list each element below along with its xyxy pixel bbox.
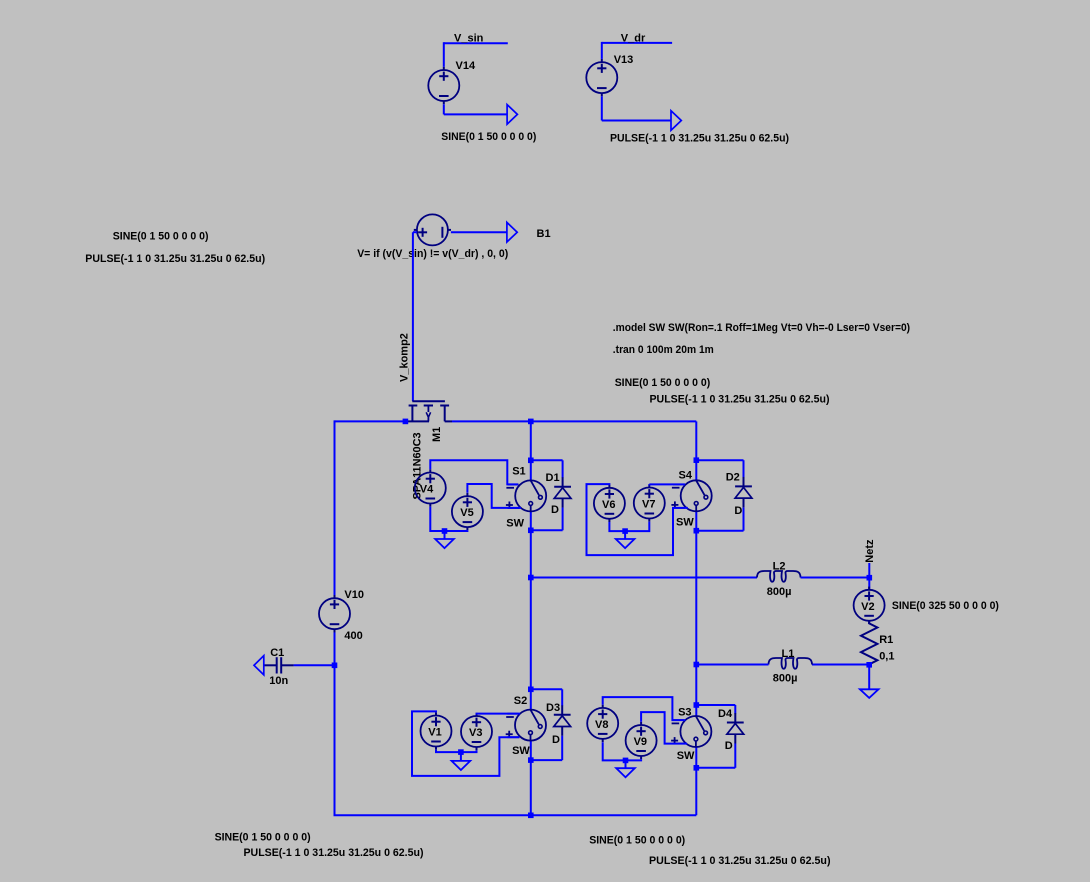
voltage source V7 [634, 484, 665, 521]
svg-text:D4: D4 [718, 708, 733, 720]
svg-text:V9: V9 [634, 736, 647, 748]
junction S1 bottom / D1 [528, 528, 534, 534]
net label V_sin [454, 33, 484, 45]
label L1 [782, 648, 795, 660]
wire from B1 right to port [451, 231, 507, 233]
label V8 [595, 719, 608, 731]
wire V7 minus to ground node [625, 522, 649, 531]
value label 10n [269, 675, 288, 687]
wire D1 bottom [531, 508, 563, 531]
wire left rail upper (bus to V10) [334, 420, 336, 598]
label V2 [861, 601, 874, 613]
switch S4 [671, 480, 711, 511]
net label V_komp2 (rotated) [398, 333, 410, 382]
voltage source V9 [626, 722, 657, 759]
text .model directive [613, 322, 911, 334]
junction right rail / L1 [694, 662, 700, 668]
wire V9 plus to S3 plus [641, 712, 687, 744]
wire ground stem S2 block [460, 752, 462, 761]
voltage source V3 [461, 713, 492, 750]
resistor R1 [861, 621, 877, 664]
wire left rail lower (V10 to bottom bus) [334, 629, 336, 815]
wire middle rail (S2 to bottom bus) [530, 741, 532, 816]
svg-text:D3: D3 [546, 702, 560, 714]
svg-text:C1: C1 [270, 647, 284, 659]
svg-text:L2: L2 [773, 561, 786, 573]
port flag arrow (V13 output) [671, 111, 681, 131]
label V5 [460, 507, 473, 519]
svg-text:D2: D2 [726, 471, 740, 483]
wire D3 top [531, 689, 562, 705]
label D2 [726, 471, 740, 483]
wire D2 bottom [696, 508, 743, 531]
wire top bus left (source node) [335, 420, 408, 422]
svg-text:.model SW SW(Ron=.1 Roff=1Meg: .model SW SW(Ron=.1 Roff=1Meg Vt=0 Vh=-0… [613, 322, 911, 334]
label V9 [634, 736, 647, 748]
voltage source V8 [587, 705, 618, 742]
value label PULSE of V13 [610, 133, 789, 145]
svg-text:PULSE(-1 1 0 31.25u 31.25u 0 6: PULSE(-1 1 0 31.25u 31.25u 0 62.5u) [650, 393, 830, 405]
label V10 [344, 589, 364, 601]
junction S3 bottom / D4 [694, 765, 700, 771]
ground flag below R1 [860, 689, 879, 698]
port flag arrow (V14 output) [507, 105, 517, 125]
wire V5 minus to ground node [445, 529, 468, 532]
junction V4/V5 ground node [442, 528, 448, 534]
label S2 [514, 695, 527, 707]
svg-text:Netz: Netz [864, 539, 876, 563]
ground flag S3 block [616, 768, 635, 777]
label V14 [456, 60, 476, 72]
svg-text:PULSE(-1 1 0 31.25u 31.25u 0 6: PULSE(-1 1 0 31.25u 31.25u 0 62.5u) [610, 133, 789, 145]
text PULSE directive top-left [85, 253, 265, 265]
label SW of S1 [506, 517, 524, 529]
svg-text:SW: SW [676, 516, 694, 528]
ground flag S1 block [435, 539, 454, 548]
label S3 [678, 707, 691, 719]
ground flag S2 block [452, 761, 471, 770]
svg-text:800µ: 800µ [767, 586, 792, 598]
wire L2 right [801, 577, 870, 579]
label D4 [718, 708, 733, 720]
wire right rail (bus to S4) [695, 421, 697, 480]
label V13 [614, 54, 634, 66]
wire D4 top [696, 705, 735, 713]
svg-text:SW: SW [506, 517, 524, 529]
voltage source V10 [319, 595, 350, 632]
junction C1 / left rail [332, 663, 338, 669]
value label SINE of V2 [892, 600, 999, 612]
label D of D2 [734, 505, 742, 517]
label S4 [679, 470, 693, 482]
wire D3 bottom [531, 736, 562, 760]
wire right rail (S3 to bottom bus) [695, 747, 697, 815]
svg-text:V4: V4 [420, 484, 434, 496]
text SINE directive top-left [113, 231, 209, 243]
svg-text:800µ: 800µ [773, 672, 798, 684]
wire V8 plus to S3 minus [603, 697, 686, 720]
svg-text:SINE(0 1 50 0 0 0 0): SINE(0 1 50 0 0 0 0) [113, 231, 209, 243]
value label of B1 [357, 248, 508, 260]
svg-text:V10: V10 [344, 589, 364, 601]
voltage source V6 [594, 485, 625, 522]
value label 800u of L2 [767, 586, 792, 598]
label M1 (rotated) [431, 427, 443, 442]
wire C1 to left rail [294, 664, 335, 666]
svg-text:V_sin: V_sin [454, 33, 484, 45]
wire V4 plus to S1 minus [430, 460, 518, 484]
svg-text:S2: S2 [514, 695, 527, 707]
svg-text:SINE(0 1 50 0 0 0 0): SINE(0 1 50 0 0 0 0) [615, 377, 711, 389]
diode D1 [554, 477, 571, 508]
port flag arrow (C1 left) [254, 656, 264, 675]
wire V7 plus to S4 minus [649, 483, 685, 485]
label S1 [512, 465, 525, 477]
net label Netz (rotated) [864, 539, 876, 563]
svg-text:V= if (v(V_sin) != v(V_dr) , 0: V= if (v(V_sin) != v(V_dr) , 0, 0) [357, 248, 508, 260]
svg-text:D1: D1 [546, 472, 560, 484]
wire V_sin net (top of V14) [444, 42, 508, 67]
label SW of S4 [676, 516, 694, 528]
label R1 [879, 634, 893, 646]
text .tran directive [613, 344, 714, 356]
wire middle rail (S1 to S2) [530, 511, 532, 709]
behavioral source B1 [414, 214, 451, 245]
switch S1 [506, 480, 546, 511]
wire V1 minus to ground node [436, 750, 461, 752]
capacitor C1 [264, 657, 294, 673]
label V7 [642, 499, 655, 511]
wire V9 minus to ground node [626, 759, 642, 760]
junction middle rail / L2 [528, 575, 534, 581]
junction R1 / L1 [866, 662, 872, 668]
wire V4 minus to ground node [430, 507, 444, 531]
port flag arrow (B1 output) [507, 222, 517, 242]
wire L1 left [696, 664, 768, 666]
voltage source V5 [452, 493, 483, 530]
diode D2 [735, 477, 752, 508]
value label SINE of V14 [441, 131, 536, 143]
switch S3 [671, 716, 711, 747]
wire V6 plus loop to S4 plus [587, 484, 688, 555]
junction Netz / L2 [867, 575, 873, 581]
text SINE directive bottom-right [589, 834, 685, 846]
svg-text:400: 400 [344, 630, 362, 642]
nmos transistor M1 [407, 401, 452, 421]
svg-text:10n: 10n [269, 675, 288, 687]
voltage source V2 [854, 587, 885, 624]
label D of D3 [552, 734, 560, 746]
value label 400 [344, 630, 362, 642]
inductor L2 [757, 571, 801, 582]
svg-text:S1: S1 [512, 465, 525, 477]
junction top bus / middle rail [528, 419, 534, 425]
svg-text:V8: V8 [595, 719, 608, 731]
svg-text:D: D [725, 740, 733, 752]
label V3 [469, 727, 482, 739]
label SW of S3 [677, 750, 695, 762]
text PULSE directive bottom-right [649, 855, 831, 867]
svg-text:M1: M1 [431, 427, 443, 442]
voltage source V1 [421, 712, 452, 749]
wire V3 minus to ground node [461, 750, 477, 752]
label V4 [420, 484, 434, 496]
wire L2 left [531, 577, 757, 579]
wire right rail (S4 to S3) [695, 511, 697, 716]
svg-text:L1: L1 [782, 648, 795, 660]
junction S4 bottom / D2 [694, 528, 700, 534]
svg-text:V13: V13 [614, 54, 634, 66]
label V1 [428, 727, 441, 739]
wire D1 top [531, 460, 563, 477]
label B1 [537, 228, 551, 240]
wire V_dr net (top of V13) [602, 42, 672, 59]
text SINE directive bottom-left [215, 832, 311, 844]
svg-text:V6: V6 [602, 499, 615, 511]
ground flag S4 block [616, 539, 635, 548]
svg-text:V5: V5 [460, 507, 473, 519]
svg-text:V3: V3 [469, 727, 482, 739]
wire Netz net [868, 563, 870, 590]
label D3 [546, 702, 560, 714]
svg-text:S4: S4 [679, 470, 693, 482]
svg-text:V7: V7 [642, 499, 655, 511]
voltage source V14 [428, 67, 459, 104]
junction V8/V9 ground node [623, 758, 629, 764]
wire L1 right [812, 664, 869, 666]
label D1 [546, 472, 560, 484]
svg-text:SINE(0 325 50 0 0 0 0): SINE(0 325 50 0 0 0 0) [892, 600, 999, 612]
junction V6/V7 ground node [622, 528, 628, 534]
wire V1 plus loop to S2 plus [412, 711, 519, 776]
svg-text:D: D [734, 505, 742, 517]
svg-text:D: D [551, 504, 559, 516]
svg-text:SINE(0 1 50 0 0 0 0): SINE(0 1 50 0 0 0 0) [441, 131, 536, 143]
junction S1 top / D1 [528, 458, 534, 464]
junction S2 top / D3 [528, 687, 534, 693]
wire top bus right (drain node) [452, 420, 696, 422]
svg-text:SW: SW [512, 745, 530, 757]
svg-text:PULSE(-1 1 0 31.25u 31.25u 0 6: PULSE(-1 1 0 31.25u 31.25u 0 62.5u) [85, 253, 265, 265]
svg-text:B1: B1 [537, 228, 551, 240]
svg-text:R1: R1 [879, 634, 893, 646]
value label SPA11N60C3 (rotated) [411, 433, 423, 500]
svg-text:.tran 0 100m 20m 1m: .tran 0 100m 20m 1m [613, 344, 714, 356]
svg-text:V14: V14 [456, 60, 476, 72]
inductor L1 [769, 658, 813, 669]
switch S2 [506, 710, 546, 741]
wire bottom bus [334, 814, 697, 816]
label D of D4 [725, 740, 733, 752]
text PULSE directive middle [650, 393, 830, 405]
label V6 [602, 499, 615, 511]
junction at M1 source [403, 419, 409, 425]
junction S4 top / D2 [694, 457, 700, 463]
wire V5 plus to S1 plus [467, 484, 521, 508]
junction V1/V3 ground node [458, 749, 464, 755]
wire from V14 bottom [444, 104, 507, 114]
wire D2 top [696, 460, 743, 477]
wire V3 plus to S2 minus [477, 712, 521, 715]
label C1 [270, 647, 284, 659]
svg-text:S3: S3 [678, 707, 691, 719]
svg-text:SW: SW [677, 750, 695, 762]
wire ground stem below R1 [868, 665, 870, 690]
svg-text:V2: V2 [861, 601, 874, 613]
voltage source V13 [586, 59, 617, 96]
text PULSE directive bottom-left [244, 847, 424, 859]
label SW of S2 [512, 745, 530, 757]
wire V8 minus to ground node [603, 742, 626, 760]
junction bottom bus / middle rail [528, 813, 534, 819]
wire D4 bottom [696, 744, 735, 768]
junction S3 top / D4 [694, 702, 700, 708]
label L2 [773, 561, 786, 573]
junction S2 bottom / D3 [528, 757, 534, 763]
wire V_komp2 (B1 to M1 gate) [413, 232, 417, 401]
value label 800u of L1 [773, 672, 798, 684]
text SINE directive middle [615, 377, 711, 389]
wire from V13 bottom [602, 96, 671, 120]
svg-text:V_dr: V_dr [621, 33, 646, 45]
wire ground stem S1 block [444, 531, 446, 539]
wire ground stem S4 block [624, 531, 626, 539]
svg-text:PULSE(-1 1 0 31.25u 31.25u 0 6: PULSE(-1 1 0 31.25u 31.25u 0 62.5u) [244, 847, 424, 859]
svg-text:SINE(0 1 50 0 0 0 0): SINE(0 1 50 0 0 0 0) [589, 834, 685, 846]
voltage source V4 [415, 469, 446, 506]
svg-text:0,1: 0,1 [879, 651, 894, 663]
svg-text:V1: V1 [428, 727, 441, 739]
wire ground stem S3 block [625, 760, 627, 768]
svg-text:SINE(0 1 50 0 0 0 0): SINE(0 1 50 0 0 0 0) [215, 832, 311, 844]
diode D3 [554, 705, 571, 736]
wire middle rail (bus to S1) [530, 421, 532, 480]
svg-text:V_komp2: V_komp2 [398, 333, 410, 382]
svg-text:PULSE(-1 1 0 31.25u 31.25u 0 6: PULSE(-1 1 0 31.25u 31.25u 0 62.5u) [649, 855, 831, 867]
svg-text:D: D [552, 734, 560, 746]
diode D4 [727, 713, 744, 744]
label D of D1 [551, 504, 559, 516]
net label V_dr [621, 33, 646, 45]
wire V6 minus to ground node [609, 522, 625, 531]
value label 0,1 [879, 651, 894, 663]
